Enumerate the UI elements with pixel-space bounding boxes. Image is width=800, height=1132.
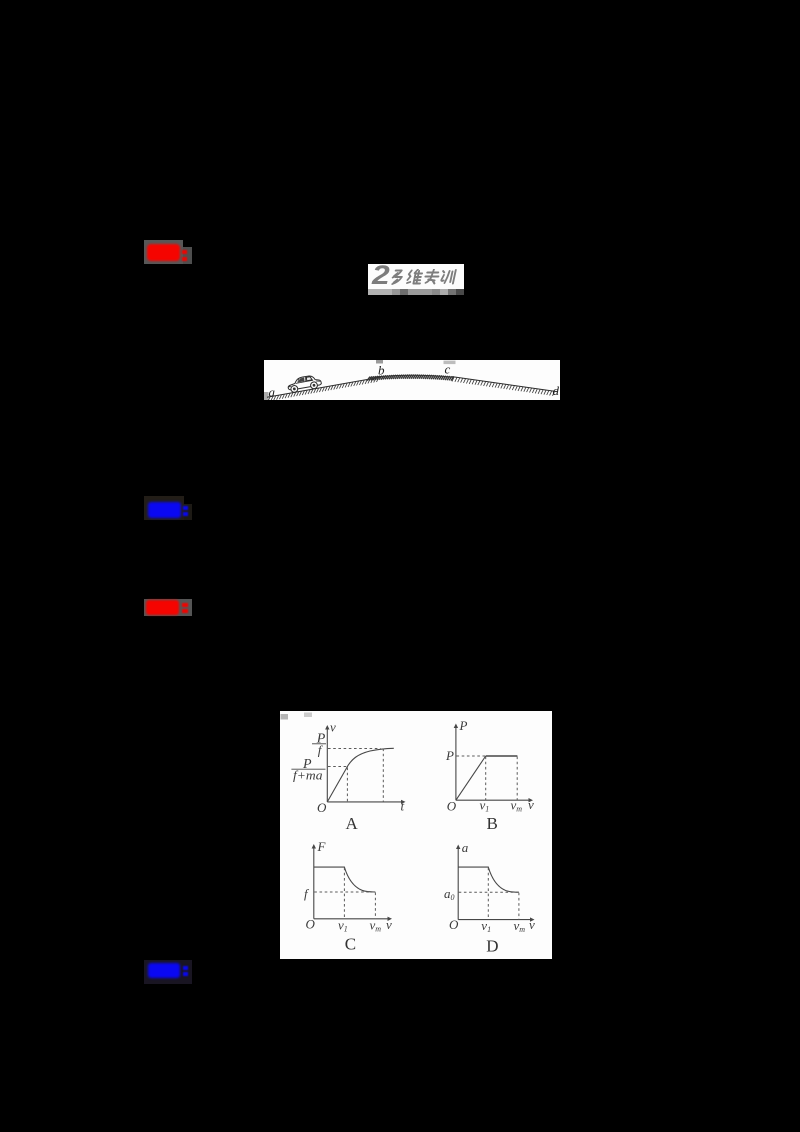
svg-text:P: P xyxy=(459,718,468,733)
svg-text:v: v xyxy=(330,720,336,735)
svg-text:P: P xyxy=(445,748,454,763)
svg-text:D: D xyxy=(486,937,498,956)
svg-text:O: O xyxy=(447,799,457,814)
svg-text:B: B xyxy=(487,814,498,833)
svg-text:a: a xyxy=(269,385,276,400)
svg-text:v: v xyxy=(528,797,534,812)
svg-text:O: O xyxy=(317,800,327,815)
svg-text:v: v xyxy=(529,917,535,932)
svg-text:v: v xyxy=(386,917,392,932)
svg-text:C: C xyxy=(345,935,356,954)
svg-text:f+ma: f+ma xyxy=(293,768,323,783)
svg-text:a: a xyxy=(462,840,469,855)
svg-text:c: c xyxy=(445,362,451,377)
svg-text:O: O xyxy=(449,917,459,932)
svg-text:b: b xyxy=(378,363,385,378)
svg-text:A: A xyxy=(346,814,359,833)
svg-text:F: F xyxy=(317,839,327,854)
svg-text:d: d xyxy=(553,383,560,398)
svg-text:t: t xyxy=(401,799,405,814)
svg-text:O: O xyxy=(306,917,316,932)
